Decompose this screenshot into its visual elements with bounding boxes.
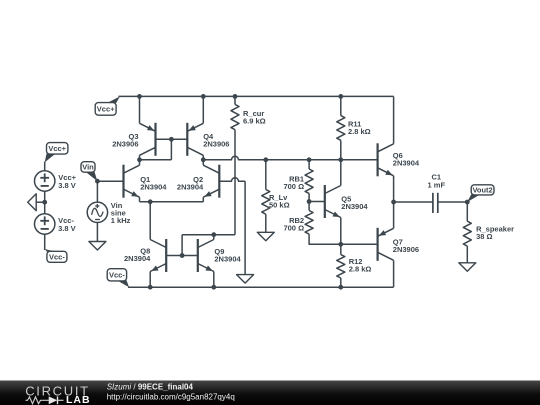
node Q8/Q9 base bbox=[180, 253, 185, 258]
wire V1 to midpoint node bbox=[44, 191, 46, 202]
wire base link down bbox=[170, 139, 172, 160]
wire mid rail (hops R_cur column) bbox=[203, 156, 377, 159]
node RB1/RB2/Q5 base bbox=[307, 199, 312, 204]
svg-text:LAB: LAB bbox=[66, 394, 91, 405]
capacitor C1 1 mF bbox=[428, 173, 446, 213]
svg-text:1 mF: 1 mF bbox=[428, 180, 446, 189]
node RB1 / mid rail bbox=[307, 157, 312, 162]
svg-text:Vout2: Vout2 bbox=[472, 186, 492, 195]
net flag Vcc- (bottom rail) bbox=[107, 269, 129, 288]
wire Q2 base to ground column bbox=[244, 181, 246, 274]
node supply midpoint bbox=[42, 200, 47, 205]
wire Q7 emitter stub bbox=[393, 202, 395, 228]
svg-text:2N3904: 2N3904 bbox=[341, 202, 368, 211]
svg-text:2N3904: 2N3904 bbox=[124, 254, 151, 263]
svg-text:2N3904: 2N3904 bbox=[214, 254, 241, 263]
transistor Q4 2N3906 bbox=[187, 123, 229, 156]
wire Vin node to V3 bbox=[96, 181, 98, 202]
resistor R12 2.8 kOhm bbox=[337, 244, 372, 287]
transistor Q2 2N3904 bbox=[177, 165, 219, 198]
wire Q3 collector stub bbox=[139, 155, 141, 160]
wire Vin to Q1 base bbox=[97, 180, 123, 182]
node R11 / mid rail bbox=[338, 157, 343, 162]
transistor Q9 2N3904 bbox=[198, 239, 242, 272]
svg-text:http://circuitlab.com/c9g5an82: http://circuitlab.com/c9g5an827qy4q bbox=[107, 393, 235, 402]
ground (Vin source) bbox=[89, 242, 106, 251]
wire top Vcc+ rail bbox=[119, 95, 394, 97]
resistor R_cur 6.9 kOhm bbox=[231, 96, 266, 129]
footer title SIzumi / 99ECE_final04 bbox=[107, 382, 194, 391]
logo diode symbol bbox=[49, 396, 64, 404]
wire tail down to Q8 bbox=[149, 202, 151, 240]
wire V2 to Vcc- flag bbox=[44, 234, 46, 250]
svg-text:Vcc-: Vcc- bbox=[109, 271, 125, 280]
wire Q5 collector link bbox=[340, 160, 342, 186]
net flag Vout2 bbox=[467, 185, 494, 202]
footer bar bbox=[0, 381, 540, 405]
voltage source V3 Vin sine 1 kHz bbox=[87, 201, 130, 225]
transistor Q3 2N3906 bbox=[112, 123, 155, 156]
svg-text:Vcc+: Vcc+ bbox=[97, 105, 115, 114]
node Q3 emitter / rail bbox=[137, 94, 142, 99]
node R_Lv / mid rail bbox=[263, 157, 268, 162]
node Vout2 bbox=[465, 200, 470, 205]
transistor Q6 2N3904 bbox=[378, 143, 420, 176]
transistor Q7 2N3906 bbox=[378, 228, 419, 261]
wire Q3 emitter stub bbox=[139, 96, 141, 123]
wire Q1 collector stub bbox=[139, 160, 141, 165]
svg-text:2N3904: 2N3904 bbox=[177, 182, 204, 191]
logo text LAB bbox=[66, 394, 91, 405]
node R_cur / rail bbox=[233, 94, 238, 99]
wire R_cur column down bbox=[234, 130, 236, 235]
ground (Q2 base) bbox=[237, 275, 254, 284]
wire Q5 base bbox=[309, 201, 325, 203]
wire Q6 collector column bbox=[393, 96, 395, 143]
wire bias rail (Q7 base) bbox=[309, 243, 378, 245]
node Q3/Q4 base bbox=[169, 137, 174, 142]
svg-text:2N3904: 2N3904 bbox=[393, 159, 420, 168]
net flag Vcc+ (supply column) bbox=[45, 143, 68, 163]
node tail (Q8 collector) bbox=[148, 199, 153, 204]
wire base link up bbox=[181, 235, 183, 256]
wire Q8-Q9 base link bbox=[166, 255, 198, 257]
ground (R_Lv) bbox=[257, 232, 274, 241]
wire Q7 collector stub bbox=[393, 260, 395, 287]
wire emitter rail Q1-Q2 bbox=[140, 197, 204, 202]
wire midpoint to V2 bbox=[44, 202, 46, 214]
resistor R_speaker 38 Ohm bbox=[463, 202, 514, 263]
wire V3 to ground bbox=[96, 223, 98, 242]
ground (R_speaker) bbox=[459, 263, 476, 272]
node output (Q6/Q7 emitters) bbox=[391, 200, 396, 205]
wire Q9 collector stub bbox=[213, 235, 215, 240]
voltage source V1 Vcc+ 3.8 V bbox=[35, 171, 77, 191]
wire Q2 base (hops R_cur column) bbox=[219, 178, 245, 181]
wire Q3-Q4 base link bbox=[156, 138, 188, 140]
wire C1 to Vout2 node bbox=[438, 201, 468, 203]
wire Q2 collector stub bbox=[202, 155, 204, 165]
wire Q4 emitter stub bbox=[202, 96, 204, 123]
resistor R_Lv 50 kOhm bbox=[262, 160, 290, 233]
node Q9 emitter / rail bbox=[211, 285, 216, 290]
wire bottom Vcc- rail bbox=[128, 286, 394, 288]
svg-text:700 Ω: 700 Ω bbox=[283, 182, 304, 191]
svg-text:2N3906: 2N3906 bbox=[203, 139, 229, 148]
net flag Vcc+ (top rail) bbox=[95, 96, 120, 115]
transistor Q1 2N3904 bbox=[124, 165, 168, 198]
svg-text:1 kHz: 1 kHz bbox=[111, 216, 131, 225]
node R12 / rail bbox=[338, 285, 343, 290]
svg-text:2N3906: 2N3906 bbox=[112, 139, 138, 148]
net flag Vin bbox=[81, 162, 97, 182]
logo resistor zigzag bbox=[26, 397, 49, 404]
wire Vcc+ flag to V1 bbox=[44, 162, 46, 172]
svg-text:3.8 V: 3.8 V bbox=[58, 224, 76, 233]
wire mirror bias horizontal bbox=[182, 234, 235, 236]
wire Q5 emitter stub bbox=[340, 218, 342, 245]
node Q4 emitter / rail bbox=[201, 94, 206, 99]
transistor Q8 2N3904 bbox=[124, 239, 166, 272]
node Q8 emitter / rail bbox=[148, 285, 153, 290]
wire diode-connect to node A bbox=[139, 159, 172, 161]
svg-text:6.9 kΩ: 6.9 kΩ bbox=[243, 117, 266, 126]
wire Q6 emitter stub bbox=[393, 176, 395, 202]
svg-text:2.8 kΩ: 2.8 kΩ bbox=[349, 265, 372, 274]
voltage source V2 Vcc- 3.8 V bbox=[35, 214, 76, 234]
resistor RB1 700 Ohm bbox=[283, 160, 313, 202]
node Q9 collector bbox=[211, 232, 216, 237]
svg-text:3.8 V: 3.8 V bbox=[58, 181, 76, 190]
svg-text:50 kΩ: 50 kΩ bbox=[269, 200, 290, 209]
node A (Q1/Q3 collectors) bbox=[137, 157, 142, 162]
net flag Vcc- (supply column) bbox=[45, 249, 67, 262]
resistor RB2 700 Ohm bbox=[283, 202, 324, 245]
svg-text:Vin: Vin bbox=[82, 163, 94, 172]
svg-text:38 Ω: 38 Ω bbox=[476, 232, 492, 241]
wire output to C1 bbox=[394, 201, 433, 203]
node R11 / rail bbox=[338, 94, 343, 99]
svg-text:700 Ω: 700 Ω bbox=[283, 224, 304, 233]
svg-text:Vcc+: Vcc+ bbox=[48, 144, 66, 153]
transistor Q5 2N3904 bbox=[325, 185, 369, 218]
node Vin bbox=[95, 179, 100, 184]
node B (Q2/Q4 collectors) bbox=[201, 157, 206, 162]
wire midpoint to ground bbox=[36, 201, 45, 203]
footer url bbox=[107, 393, 235, 402]
wire Q9 emitter stub bbox=[213, 272, 215, 288]
svg-text:2.8 kΩ: 2.8 kΩ bbox=[348, 127, 371, 136]
node Q5 emitter / R12 bbox=[338, 242, 343, 247]
svg-text:Vcc-: Vcc- bbox=[49, 253, 65, 262]
resistor R11 2.8 kOhm bbox=[337, 96, 371, 159]
svg-text:2N3904: 2N3904 bbox=[140, 182, 167, 191]
CircuitLab logo text CIRCUIT bbox=[25, 383, 90, 398]
svg-text:2N3906: 2N3906 bbox=[393, 245, 419, 254]
ground (supply midpoint, left-pointing) bbox=[28, 194, 37, 211]
wire Q8 emitter stub bbox=[149, 272, 151, 288]
svg-text:SIzumi / 99ECE_final04: SIzumi / 99ECE_final04 bbox=[107, 382, 194, 391]
